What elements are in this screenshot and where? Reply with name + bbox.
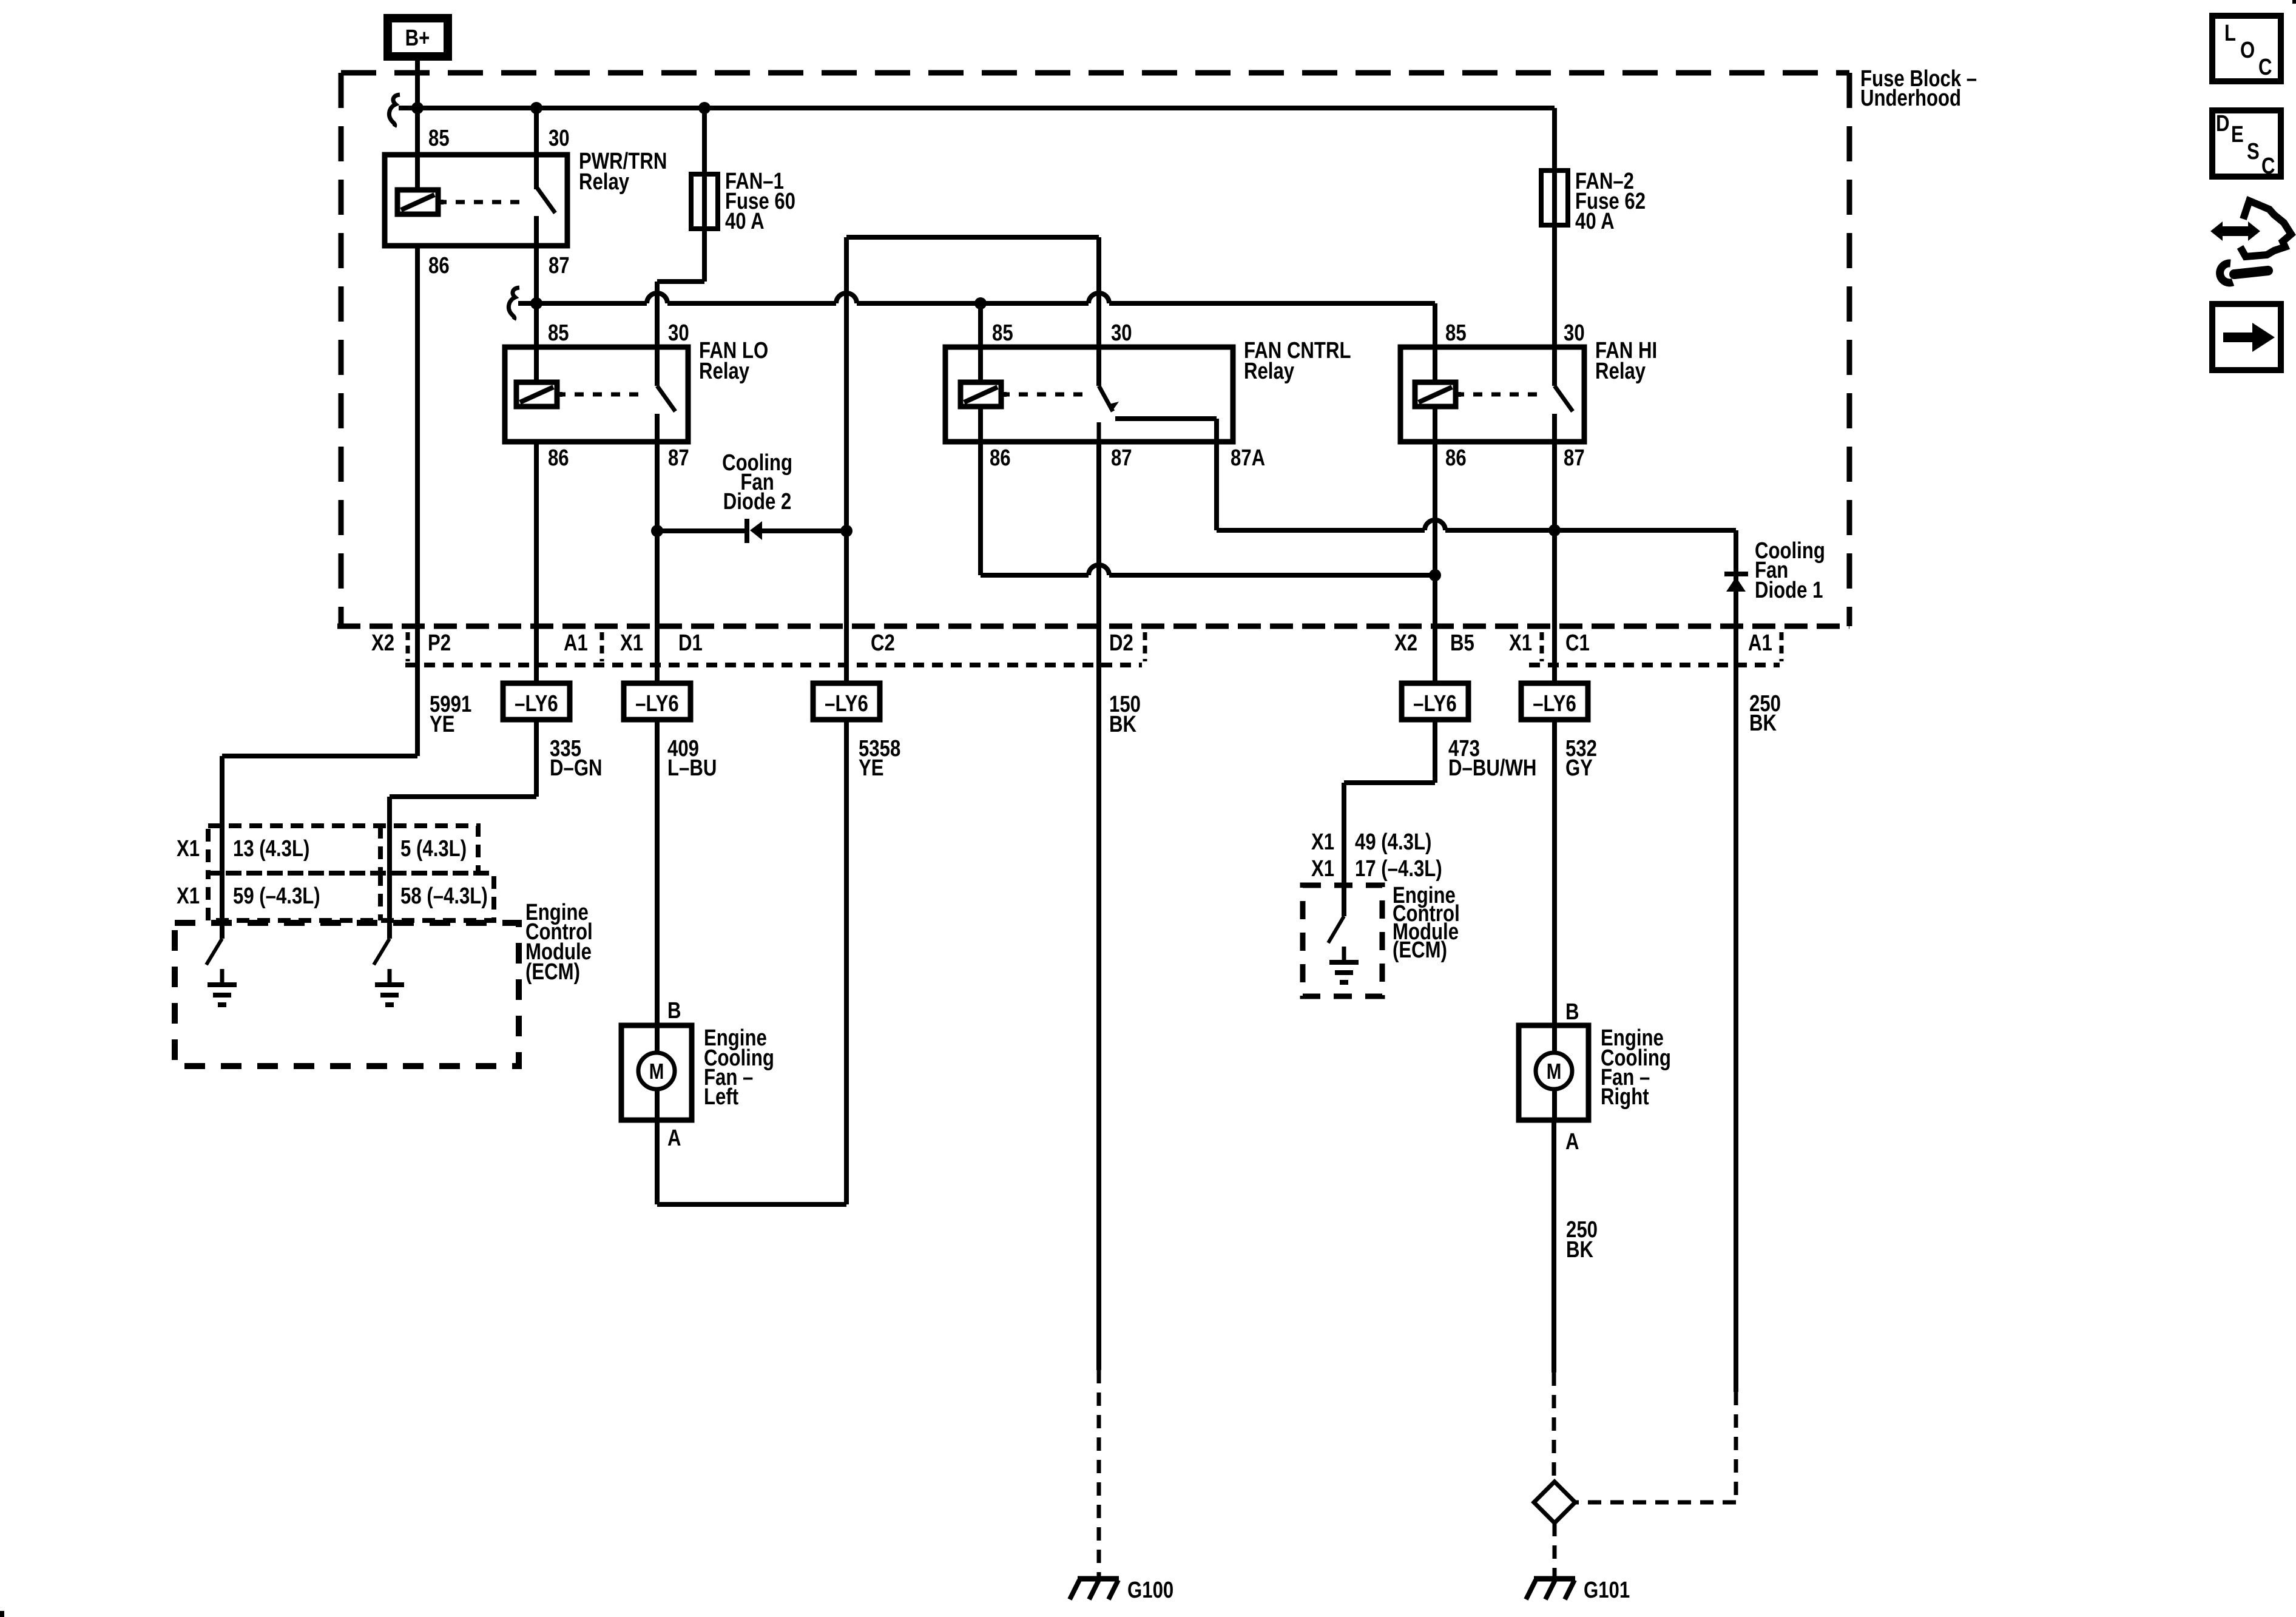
label Cooling Fan Diode 1: [1755, 538, 1825, 603]
label 335 D-GN: [550, 736, 603, 781]
svg-text:Left: Left: [704, 1084, 738, 1110]
ECM pin row 13/5 box: [208, 826, 478, 873]
fuse FAN-2: [1541, 170, 1568, 225]
pin label 86 FAN HI: [1445, 445, 1467, 471]
wire right fan A 250 BK: [1551, 1120, 1556, 1372]
junction dot bus1/85: [411, 102, 424, 114]
relay FAN HI link: [1455, 393, 1541, 397]
svg-text:–LY6: –LY6: [635, 691, 679, 717]
connector label X1 left: [620, 630, 643, 656]
svg-text:30: 30: [1564, 320, 1585, 346]
relay FAN LO link: [556, 393, 644, 397]
svg-text:E: E: [2231, 122, 2244, 147]
wire bus1 to PWR/TRN pin 85: [415, 108, 420, 192]
svg-text:G101: G101: [1584, 1578, 1630, 1603]
svg-text:A1: A1: [564, 630, 588, 656]
cooling fan diode 1: [1724, 574, 1748, 592]
relay PWR/TRN link: [437, 200, 525, 204]
wire right fan dashed to splice: [1552, 1372, 1556, 1482]
svg-text:Underhood: Underhood: [1860, 86, 1961, 111]
label 409 L-BU: [667, 736, 717, 781]
label 5991 YE: [430, 692, 471, 737]
wire FAN CNTRL 86 to FAN HI 86: [981, 565, 1435, 575]
svg-text:30: 30: [668, 320, 689, 346]
relay FAN CNTRL 87A internal wire: [1115, 419, 1217, 530]
svg-text:L–BU: L–BU: [667, 755, 717, 781]
label Fuse Block - Underhood: [1860, 66, 1977, 111]
wire fuse FAN-2 to FAN HI 30: [1552, 225, 1557, 347]
svg-text:X2: X2: [1394, 630, 1417, 656]
svg-text:C: C: [2261, 154, 2275, 179]
svg-text:D: D: [2216, 111, 2230, 137]
pin label 87A FAN CNTRL: [1231, 445, 1265, 471]
svg-text:86: 86: [548, 445, 569, 471]
svg-text:X2: X2: [371, 630, 394, 656]
relay FAN CNTRL link: [1001, 393, 1086, 397]
ground G100: [1070, 1578, 1173, 1603]
svg-text:B: B: [667, 998, 681, 1024]
svg-text:X1: X1: [620, 630, 643, 656]
pin label 86 FAN LO: [548, 445, 569, 471]
svg-text:–LY6: –LY6: [1413, 691, 1457, 717]
pin label B left fan: [667, 998, 681, 1024]
svg-text:86: 86: [990, 445, 1011, 471]
wire B+ to bus: [415, 56, 420, 110]
relay PWR/TRN switch: [536, 187, 555, 246]
icon arrow box: [2212, 304, 2281, 370]
junction dot 87A/C1: [1548, 524, 1561, 536]
pin label 87 FAN LO: [668, 445, 689, 471]
svg-text:BK: BK: [1749, 711, 1777, 736]
pin label 85 FAN LO: [548, 320, 569, 346]
wire diode1 branch down: [1734, 530, 1738, 626]
svg-text:X1: X1: [1311, 856, 1334, 882]
svg-text:YE: YE: [859, 755, 884, 781]
wire bus1 to fuse FAN-1: [702, 108, 707, 229]
svg-text:86: 86: [428, 253, 450, 279]
ECM pin row 59/58 box: [208, 873, 494, 920]
bus tap bracket 2: [508, 288, 519, 320]
icon DESC box: [2212, 110, 2281, 179]
svg-text:40 A: 40 A: [725, 209, 765, 234]
variant box -LY6 A1: [503, 683, 570, 720]
svg-text:D–BU/WH: D–BU/WH: [1448, 755, 1536, 781]
connector separator sep A1 right: [1780, 632, 1784, 661]
fuse FAN-1: [691, 174, 718, 229]
power feed B+ box: [388, 18, 448, 56]
ground ECM 1: [208, 969, 237, 1005]
label 150 BK: [1109, 692, 1141, 737]
connector bottom dash left segment: [405, 663, 1142, 667]
svg-text:BK: BK: [1109, 712, 1136, 737]
svg-text:B+: B+: [405, 25, 430, 51]
svg-text:58 (–4.3L): 58 (–4.3L): [400, 883, 488, 909]
label FAN CNTRL Relay: [1244, 338, 1351, 384]
svg-text:Right: Right: [1601, 1084, 1649, 1110]
wire FAN LO 87 down: [655, 442, 660, 683]
ground G101: [1526, 1578, 1630, 1603]
junction dot bus1/30: [530, 102, 542, 114]
cooling fan diode 2: [747, 519, 762, 543]
wire D1 409 L-BU to left fan: [655, 720, 660, 1025]
svg-text:P2: P2: [428, 630, 451, 656]
svg-text:87: 87: [549, 253, 570, 279]
svg-text:85: 85: [992, 320, 1013, 346]
svg-text:O: O: [2240, 38, 2255, 63]
svg-text:C1: C1: [1565, 630, 1590, 656]
wire C1 532 GY to right fan: [1552, 442, 1557, 1025]
relay FAN CNTRL box: [945, 347, 1233, 442]
icon vehicle outline with arrow: [2210, 201, 2291, 257]
svg-text:Relay: Relay: [699, 359, 750, 384]
svg-text:C: C: [2258, 55, 2272, 80]
ECM left dashed box: [175, 923, 519, 1066]
label FAN-2 Fuse 62 40A: [1575, 169, 1646, 234]
svg-text:–LY6: –LY6: [1533, 691, 1576, 717]
svg-text:30: 30: [549, 126, 570, 151]
relay FAN LO switch: [657, 347, 675, 442]
connector separator sep X1-C1: [1540, 632, 1544, 661]
ECM ground switch 1: [206, 923, 222, 965]
svg-text:Diode 1: Diode 1: [1755, 578, 1823, 603]
pin label 87 FAN HI: [1564, 445, 1585, 471]
connector label X2 left: [371, 630, 394, 656]
variant box -LY6 C1: [1521, 683, 1588, 720]
pin label X1 49 (4.3L): [1311, 829, 1431, 855]
wire splice dashed to G101: [1553, 1523, 1557, 1579]
label 473 D-BU/WH: [1448, 736, 1536, 781]
svg-text:(ECM): (ECM): [525, 959, 580, 985]
svg-text:S: S: [2247, 139, 2260, 164]
bus2 horizontal wire: [518, 293, 1435, 303]
splice diamond: [1534, 1482, 1575, 1523]
wire FAN CNTRL 87A to right: [1217, 520, 1736, 530]
pin label 58 (-4.3L): [400, 883, 488, 909]
wire PWR/TRN 87 down to bus2: [534, 246, 539, 303]
svg-text:–LY6: –LY6: [825, 691, 868, 717]
connector label C2: [871, 630, 895, 656]
motor engine cooling fan left: [621, 1025, 692, 1120]
label FAN HI Relay: [1595, 338, 1657, 384]
svg-text:C2: C2: [871, 630, 895, 656]
fuse block bottom long-dash line: [337, 624, 1849, 629]
label 532 GY: [1565, 736, 1597, 781]
svg-text:YE: YE: [430, 712, 455, 737]
junction dot bus2/FAN LO 85: [530, 297, 542, 309]
svg-text:D1: D1: [678, 630, 703, 656]
stray mark bottom left: [0, 1611, 4, 1617]
wire bus1 to PWR/TRN pin 30: [534, 108, 539, 189]
wire bus2 to FAN CNTRL pin 85: [978, 303, 983, 383]
svg-text:M: M: [649, 1059, 664, 1083]
wire FAN LO 86 down to A1: [534, 442, 539, 683]
junction dot 86/86: [1429, 569, 1441, 581]
connector label B5: [1450, 630, 1474, 656]
svg-text:A1: A1: [1748, 630, 1772, 656]
svg-text:A: A: [1565, 1129, 1579, 1155]
pin label 30 FAN CNTRL: [1111, 320, 1132, 346]
relay FAN LO coil: [516, 382, 562, 407]
label Engine Control Module (ECM) right: [1393, 883, 1460, 963]
icon LOC box: [2212, 16, 2281, 81]
svg-text:5 (4.3L): 5 (4.3L): [400, 836, 467, 862]
label Engine Cooling Fan - Left: [704, 1025, 774, 1110]
pin label X1 13 (4.3L): [177, 836, 309, 862]
label Engine Control Module (ECM) left: [525, 900, 593, 985]
connector label X1 right: [1509, 630, 1532, 656]
svg-text:X1: X1: [1509, 630, 1532, 656]
svg-text:D2: D2: [1109, 630, 1133, 656]
svg-text:87A: 87A: [1231, 445, 1265, 471]
svg-text:13 (4.3L): 13 (4.3L): [233, 836, 309, 862]
pin label 85 FAN HI: [1445, 320, 1467, 346]
ECM ground switch 3: [1328, 916, 1344, 943]
junction dot diode2 left: [651, 525, 663, 537]
relay FAN LO box: [505, 347, 688, 442]
wire FAN CNTRL 87 down 150 BK: [1096, 442, 1101, 1370]
svg-text:40 A: 40 A: [1575, 209, 1615, 234]
svg-text:17 (–4.3L): 17 (–4.3L): [1355, 856, 1442, 882]
relay PWR/TRN box: [385, 155, 567, 246]
svg-text:B: B: [1565, 999, 1579, 1025]
svg-text:GY: GY: [1565, 755, 1593, 781]
connector label A1 left: [564, 630, 588, 656]
svg-text:X1: X1: [1311, 829, 1334, 855]
pin label 86 PWR/TRN: [428, 253, 450, 279]
relay FAN HI box: [1400, 347, 1584, 442]
connector label D2: [1109, 630, 1133, 656]
label 250 BK bottom: [1566, 1217, 1598, 1263]
pin label A right fan: [1565, 1129, 1579, 1155]
svg-text:Relay: Relay: [1595, 359, 1646, 384]
svg-text:X1: X1: [177, 836, 200, 862]
ECM ground switch 2: [374, 923, 390, 965]
icon wrench: [2220, 263, 2268, 283]
svg-text:Diode 2: Diode 2: [723, 489, 792, 515]
svg-text:L: L: [2224, 21, 2236, 46]
wire bus2 to FAN HI pin 85: [1433, 303, 1437, 383]
pin label X1 59 (-4.3L): [177, 883, 320, 909]
label PWR/TRN Relay: [579, 149, 667, 195]
pin label 87 PWR/TRN: [549, 253, 570, 279]
cooling fan diode 2 wire: [657, 528, 846, 533]
wire P2 5991 YE: [222, 246, 417, 939]
svg-text:B5: B5: [1450, 630, 1474, 656]
svg-text:49 (4.3L): 49 (4.3L): [1355, 829, 1431, 855]
pin label X1 17 (-4.3L): [1311, 856, 1442, 882]
wire bus1 to fuse FAN-2: [1552, 108, 1557, 225]
relay FAN HI coil: [1415, 382, 1461, 407]
svg-text:BK: BK: [1566, 1237, 1593, 1263]
connector label P2: [428, 630, 451, 656]
fuse block underhood dashed border: [341, 73, 1849, 626]
wire fuse FAN-1 to FAN LO 30: [657, 229, 704, 347]
wire A1 335 D-GN: [390, 720, 536, 939]
pin label 30 PWR/TRN: [549, 126, 570, 151]
svg-text:(ECM): (ECM): [1393, 937, 1447, 963]
variant box -LY6 C2: [813, 683, 880, 720]
junction dot bus2/FAN CNTRL 85: [974, 297, 987, 309]
svg-text:85: 85: [1445, 320, 1467, 346]
wire bus2 to FAN LO pin 85: [534, 303, 539, 383]
label FAN-1 Fuse 60 40A: [725, 169, 795, 234]
motor engine cooling fan right: [1519, 1025, 1589, 1120]
svg-text:30: 30: [1111, 320, 1132, 346]
relay FAN CNTRL switch: [1099, 347, 1119, 442]
label 5358 YE: [859, 736, 900, 781]
pin label B right fan: [1565, 999, 1579, 1025]
bus tap bracket 1: [389, 95, 400, 127]
svg-text:86: 86: [1445, 445, 1467, 471]
wire C2 5358 YE: [657, 531, 846, 1204]
svg-text:87: 87: [1564, 445, 1585, 471]
wire FAN HI 86 down to B5: [1433, 405, 1437, 683]
svg-text:M: M: [1547, 1059, 1562, 1083]
junction dot diode2 right: [840, 525, 853, 537]
wire A1 250 BK dashed to splice: [1575, 1392, 1736, 1502]
pin label A left fan: [667, 1126, 681, 1151]
relay PWR/TRN coil: [397, 190, 444, 214]
svg-text:Relay: Relay: [1244, 359, 1295, 384]
pin label 85 PWR/TRN: [428, 126, 450, 151]
svg-text:X1: X1: [177, 883, 200, 909]
svg-text:85: 85: [548, 320, 569, 346]
connector label X2 right: [1394, 630, 1417, 656]
junction dot bus1/fuse1: [698, 102, 711, 114]
connector label A1 right: [1748, 630, 1772, 656]
svg-text:G100: G100: [1127, 1578, 1173, 1603]
pin label 87 FAN CNTRL: [1111, 445, 1132, 471]
pin label 30 FAN HI: [1564, 320, 1585, 346]
label FAN LO Relay: [699, 338, 768, 384]
wire 150 BK dashed to G100: [1097, 1370, 1101, 1579]
variant box -LY6 B5: [1402, 683, 1468, 720]
relay FAN HI switch: [1555, 347, 1573, 442]
svg-text:D–GN: D–GN: [550, 755, 603, 781]
wire FAN CNTRL 86 down: [978, 405, 983, 575]
ECM right dashed box: [1303, 885, 1382, 996]
pin label 5 (4.3L): [400, 836, 467, 862]
relay FAN CNTRL coil: [961, 382, 1007, 407]
variant box -LY6 D1: [624, 683, 690, 720]
svg-text:A: A: [667, 1126, 681, 1151]
pin label 86 FAN CNTRL: [990, 445, 1011, 471]
connector label C1: [1565, 630, 1590, 656]
svg-text:59 (–4.3L): 59 (–4.3L): [233, 883, 320, 909]
connector bottom dash right segment: [1529, 663, 1780, 667]
connector separator sep X2-P2: [406, 632, 410, 661]
label Cooling Fan Diode 2: [722, 450, 792, 515]
svg-text:85: 85: [428, 126, 450, 151]
pin label 85 FAN CNTRL: [992, 320, 1013, 346]
wire loop FAN CNTRL 30 feed: [846, 237, 1099, 531]
ground ECM 2: [375, 969, 404, 1005]
connector label D1: [678, 630, 703, 656]
label Engine Cooling Fan - Right: [1601, 1025, 1671, 1110]
wire A1 250 BK down: [1734, 626, 1738, 1392]
stray mark top right: [2292, 0, 2296, 4]
bus1 horizontal wire: [399, 106, 1555, 110]
connector separator sep D2: [1143, 632, 1147, 661]
svg-text:Relay: Relay: [579, 169, 630, 195]
pin label 30 FAN LO: [668, 320, 689, 346]
ground ECM 3: [1329, 947, 1359, 982]
svg-text:87: 87: [1111, 445, 1132, 471]
wire B5 473 D-BU/WH: [1344, 720, 1435, 916]
label 250 BK right: [1749, 691, 1781, 736]
svg-text:–LY6: –LY6: [515, 691, 558, 717]
connector separator sep A1-X1: [600, 632, 604, 661]
svg-text:87: 87: [668, 445, 689, 471]
